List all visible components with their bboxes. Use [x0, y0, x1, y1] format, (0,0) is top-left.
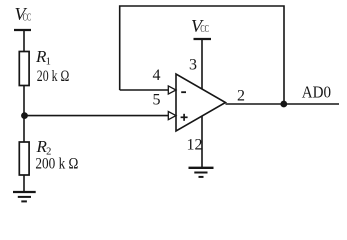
wire pin 4 (- input) — [120, 89, 169, 91]
input arrowhead pin 4 — [168, 86, 176, 94]
svg-text:4: 4 — [153, 67, 161, 84]
svg-text:12: 12 — [187, 137, 203, 154]
svg-text:3: 3 — [189, 56, 197, 73]
svg-text:CC: CC — [200, 24, 209, 35]
pin 12 wire op-amp bottom to ground — [201, 110, 203, 168]
output junction dot — [280, 101, 287, 108]
minus sign (inverting input) — [181, 91, 186, 93]
resistor R2 — [19, 142, 29, 175]
pin 3 wire Vcc to op-amp top — [201, 39, 203, 95]
plus sign (non-inverting input) — [181, 114, 188, 121]
wire node A to pin 5 (+ input) — [24, 115, 169, 117]
svg-text:5: 5 — [153, 91, 161, 108]
node A junction dot — [21, 112, 28, 119]
svg-text:2: 2 — [237, 87, 245, 104]
svg-text:AD0: AD0 — [302, 82, 331, 101]
ground (op-amp) — [189, 168, 214, 177]
svg-text:CC: CC — [23, 12, 32, 23]
input arrowhead pin 5 — [168, 112, 176, 120]
ground (left) — [13, 192, 36, 201]
svg-text:1: 1 — [46, 57, 51, 68]
op-amp U1 triangle — [176, 74, 226, 131]
svg-text:200 k Ω: 200 k Ω — [35, 155, 78, 172]
Vcc power bar (op-amp supply) — [194, 38, 212, 40]
resistor R1 — [19, 52, 29, 86]
svg-text:20 k Ω: 20 k Ω — [37, 68, 70, 85]
feedback wire output to pin 4 — [120, 6, 284, 104]
wire Vcc bar to R1 — [23, 30, 25, 52]
wire output pin 2 to AD0 — [226, 103, 340, 105]
Vcc power bar (left supply) — [14, 29, 31, 31]
wire R1 to node A and on to R2 — [23, 86, 25, 143]
wire R2 to ground — [23, 175, 25, 192]
